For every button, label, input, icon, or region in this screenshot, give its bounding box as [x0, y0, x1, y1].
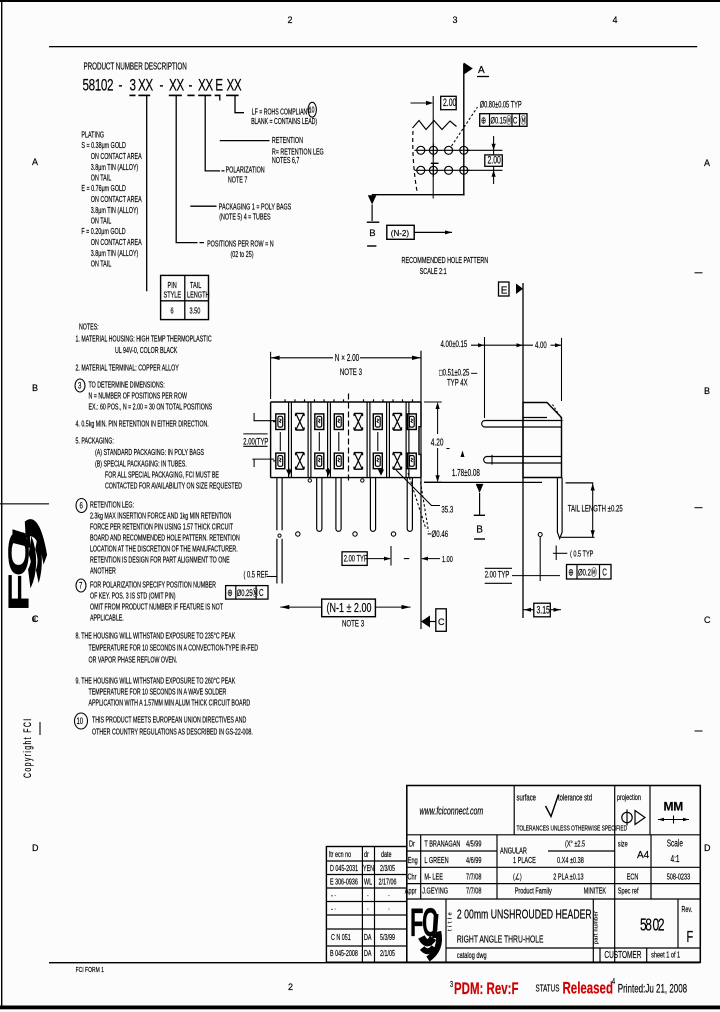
svg-text:N = NUMBER OF POSITIONS PER RO: N = NUMBER OF POSITIONS PER ROW: [89, 393, 188, 401]
pin 1 (long, with break): [277, 478, 282, 584]
signature rows: [405, 838, 690, 896]
positions per row labels: [207, 240, 273, 259]
svg-text:( 0.5 REF: ( 0.5 REF: [244, 569, 269, 580]
E flag triangle: [516, 284, 523, 295]
2.00 column dim box: [441, 96, 457, 109]
bar mark above row2 hole: [431, 162, 439, 164]
(0.5) TYP label: [555, 546, 557, 561]
hole pattern baseline: [372, 194, 465, 196]
down arrows at body bottom: [287, 468, 383, 475]
svg-text:C: C: [438, 617, 445, 627]
svg-text:1.00: 1.00: [442, 554, 453, 565]
svg-text:4.00±0.15: 4.00±0.15: [441, 339, 468, 350]
bottom black margin bar: [0, 1006, 720, 1010]
svg-text:·: ·: [388, 892, 390, 900]
svg-text:Ø0.46: Ø0.46: [431, 528, 448, 539]
pin 3: [317, 478, 322, 532]
svg-text:4/6/99: 4/6/99: [466, 855, 481, 866]
back row pin tips: [296, 532, 300, 536]
svg-text:FOR ALL SPECIAL PACKAGING, FCI: FOR ALL SPECIAL PACKAGING, FCI MUST BE: [105, 472, 219, 480]
packaging leader line: [190, 205, 216, 207]
pcb surface line: [424, 481, 542, 483]
svg-text:PDM: Rev:F: PDM: Rev:F: [454, 980, 519, 999]
hole row centerlines: [415, 149, 471, 151]
retention leader line: [220, 140, 270, 142]
svg-text:4:1: 4:1: [670, 852, 679, 864]
svg-text:NOTE 3: NOTE 3: [342, 618, 365, 629]
callout leader: LF rohs: [235, 96, 244, 113]
top frame border line: [49, 46, 697, 47]
svg-text:3: 3: [129, 77, 135, 96]
bottom 2.00 TYP dim: [342, 552, 367, 566]
svg-text:(N-1 ± 2.00: (N-1 ± 2.00: [327, 602, 372, 616]
svg-text:-: -: [189, 77, 193, 96]
svg-text:A: A: [704, 158, 710, 168]
svg-text:Rev.: Rev.: [682, 906, 693, 914]
board edge dashed: [413, 131, 417, 191]
pin 6: [370, 478, 375, 532]
body outline: [271, 402, 421, 478]
svg-text:-: -: [160, 77, 164, 96]
callout leader: plating (long vertical): [146, 96, 148, 291]
svg-text:B 045-2008: B 045-2008: [330, 950, 358, 958]
svg-text:TEMPERATURE FOR 10 SECONDS IN: TEMPERATURE FOR 10 SECONDS IN A CONVECTI…: [89, 645, 259, 653]
svg-text:ANOTHER: ANOTHER: [90, 568, 116, 576]
svg-text:APPLICABLE.: APPLICABLE.: [90, 615, 124, 623]
svg-text:CONTACTED FOR AVAILABILITY ON: CONTACTED FOR AVAILABILITY ON SIZE REQUE…: [105, 483, 242, 491]
svg-text:7/7/08: 7/7/08: [466, 885, 481, 896]
svg-text:(NOTE 5) 4 = TUBES: (NOTE 5) 4 = TUBES: [219, 214, 271, 222]
svg-text:D: D: [704, 843, 711, 853]
svg-text:(X° ±2.5: (X° ±2.5: [565, 838, 585, 849]
circled 10 after rohs: [308, 102, 316, 117]
retention labels: [272, 137, 324, 165]
svg-text:2.3kg MAX INSERTION FORCE AND: 2.3kg MAX INSERTION FORCE AND 1kg MIN RE…: [90, 513, 231, 521]
mid ticks between rows: [273, 422, 378, 461]
bottom section dividers: [445, 899, 447, 962]
svg-text:www.fciconnect.com: www.fciconnect.com: [420, 805, 484, 817]
polarization labels: [226, 167, 265, 185]
right 4.20 height dim: [424, 401, 442, 403]
svg-text:2 PLA ±0.13: 2 PLA ±0.13: [553, 871, 583, 882]
E flag box: [499, 282, 510, 296]
svg-text:XX: XX: [226, 77, 241, 96]
svg-text:OTHER COUNTRY REGULATIONS AS D: OTHER COUNTRY REGULATIONS AS DESCRIBED I…: [92, 729, 253, 737]
right edge with step: [419, 402, 421, 478]
datum A flag vertical line: [463, 64, 465, 196]
svg-text:Ø0.2Ⓜ: Ø0.2Ⓜ: [578, 567, 597, 578]
notes section: [75, 324, 258, 737]
svg-text:®: ®: [32, 614, 37, 625]
zone ticks right margin: [695, 272, 703, 273]
svg-text:R= RETENTION LEG: R= RETENTION LEG: [272, 149, 324, 157]
svg-text:FOR POLARIZATION SPECIFY POSIT: FOR POLARIZATION SPECIFY POSITION NUMBER: [90, 582, 216, 590]
svg-text:2.00 TYP: 2.00 TYP: [344, 553, 368, 564]
svg-text:E: E: [215, 77, 223, 96]
svg-text:BLANK = CONTAINS LEAD): BLANK = CONTAINS LEAD): [251, 118, 317, 126]
svg-text:10: 10: [309, 106, 315, 114]
svg-text:5. PACKAGING:: 5. PACKAGING:: [75, 438, 113, 446]
svg-text:DA: DA: [364, 934, 372, 942]
top black margin bar: [0, 0, 720, 2]
svg-text:BOARD AND RECOMMENDED HOLE PAT: BOARD AND RECOMMENDED HOLE PATTERN. RETE…: [90, 535, 240, 543]
svg-text:2.00: 2.00: [487, 154, 500, 166]
datum B letter between bars: [367, 221, 380, 223]
svg-text:surface: surface: [517, 792, 536, 803]
svg-text:8. THE HOUSING WILL WITHSTAND: 8. THE HOUSING WILL WITHSTAND EXPOSURE T…: [75, 631, 235, 641]
svg-text:10: 10: [76, 716, 83, 727]
pin 4: [336, 478, 341, 532]
svg-text:Ø0.80±0.05 TYP: Ø0.80±0.05 TYP: [480, 99, 522, 110]
svg-text:Chr: Chr: [407, 871, 416, 882]
svg-text:C: C: [259, 587, 264, 598]
svg-text:part number: part number: [594, 911, 600, 944]
svg-text:CUSTOMER: CUSTOMER: [604, 948, 641, 960]
svg-text:RECOMMENDED HOLE PATTERN: RECOMMENDED HOLE PATTERN: [401, 256, 488, 266]
circled note number 3: [75, 379, 85, 392]
3.15 dim: [534, 603, 551, 617]
FCI logo in title block: [410, 900, 439, 959]
left 2.00 TYP row pitch label: [243, 433, 267, 435]
svg-text:C: C: [602, 566, 607, 578]
svg-text:9. THE HOUSING WILL WITHSTAND: 9. THE HOUSING WILL WITHSTAND EXPOSURE T…: [75, 676, 235, 686]
svg-text:2/17/06: 2/17/06: [378, 879, 396, 887]
svg-text:projection: projection: [617, 792, 641, 803]
pin style / tail length table: [161, 275, 210, 319]
svg-text:D: D: [32, 843, 39, 853]
svg-text:- ·: - ·: [331, 892, 336, 900]
svg-text:L GREEN: L GREEN: [424, 855, 448, 866]
svg-text:XX: XX: [198, 77, 213, 96]
svg-text:4: 4: [613, 15, 618, 25]
svg-text:PRODUCT NUMBER DESCRIPTION: PRODUCT NUMBER DESCRIPTION: [84, 61, 187, 72]
svg-text:5/3/99: 5/3/99: [380, 934, 395, 942]
Copyright FCI vertical text: [21, 717, 33, 778]
tail: [557, 478, 562, 539]
svg-text:E 306-0936: E 306-0936: [330, 879, 358, 887]
circled note number 7: [76, 579, 86, 592]
section line E: [522, 283, 524, 618]
center dashed divider: [348, 394, 350, 481]
cell divider double lines: [289, 402, 409, 478]
svg-text:-: -: [119, 77, 123, 96]
svg-text:ON TAIL: ON TAIL: [91, 175, 111, 183]
row1 pin (side): [485, 421, 562, 428]
2.00 column dim extension line: [432, 96, 434, 199]
svg-text:Printed:Ju 21, 2008: Printed:Ju 21, 2008: [618, 983, 688, 996]
svg-text:UL 94V-0, COLOR BLACK: UL 94V-0, COLOR BLACK: [115, 347, 178, 355]
row2 pin (side): [487, 457, 562, 464]
holes row 2: [417, 166, 468, 174]
svg-text:S = 0.38μm GOLD: S = 0.38μm GOLD: [81, 142, 125, 150]
svg-text:7/7/08: 7/7/08: [466, 871, 481, 882]
svg-text:OF KEY. POS. 3 IS STD (OMIT PI: OF KEY. POS. 3 IS STD (OMIT PIN): [90, 593, 176, 601]
svg-text:Scale: Scale: [667, 837, 683, 849]
svg-text:·: ·: [367, 892, 369, 900]
packaging labels: [219, 203, 292, 222]
svg-text:Eng: Eng: [408, 855, 418, 866]
hole position feature control frame: [480, 114, 527, 127]
svg-text:date: date: [381, 851, 392, 859]
svg-text:C: C: [704, 615, 711, 625]
svg-text:2.00: 2.00: [443, 96, 456, 108]
svg-text:T BRANAGAN: T BRANAGAN: [424, 838, 460, 849]
svg-text:508-0233: 508-0233: [667, 871, 690, 882]
svg-text:C N 051: C N 051: [331, 934, 351, 942]
svg-text:B: B: [704, 386, 710, 396]
outer box: [407, 786, 701, 963]
circled note number 10: [75, 713, 88, 729]
svg-text:(∠): (∠): [513, 871, 522, 882]
svg-text:SCALE 2:1: SCALE 2:1: [420, 267, 447, 277]
svg-text:ltr ecn no: ltr ecn no: [329, 851, 351, 859]
svg-text:Released: Released: [563, 980, 613, 999]
dotted leader to hole size label: [452, 107, 478, 146]
side feature control frame: [567, 565, 612, 580]
(N-2) boxed dim: [387, 225, 414, 239]
svg-text:POSITIONS PER ROW = N: POSITIONS PER ROW = N: [207, 240, 273, 248]
svg-text:4.00: 4.00: [535, 340, 547, 351]
svg-text:TAIL LENGTH ±0.25: TAIL LENGTH ±0.25: [568, 503, 623, 514]
svg-text:size: size: [618, 838, 628, 849]
small circles under body: [308, 479, 311, 482]
svg-text:(B) SPECIAL PACKAGING: IN TUBE: (B) SPECIAL PACKAGING: IN TUBES.: [95, 461, 187, 469]
svg-text:ON CONTACT AREA: ON CONTACT AREA: [91, 196, 142, 204]
svg-text:PACKAGING 1 = POLY BAGS: PACKAGING 1 = POLY BAGS: [219, 203, 292, 211]
svg-text:STYLE: STYLE: [164, 289, 182, 300]
svg-text:(A) STANDARD PACKAGING: IN POL: (A) STANDARD PACKAGING: IN POLY BAGS: [95, 449, 204, 457]
svg-text:B: B: [32, 383, 38, 393]
row2 contacts: [276, 453, 285, 469]
svg-text:STATUS: STATUS: [535, 983, 559, 994]
svg-text:TYP 4X: TYP 4X: [447, 377, 468, 388]
svg-text:Dr: Dr: [409, 838, 415, 849]
svg-text:3.50: 3.50: [190, 305, 201, 316]
svg-text:(N-2): (N-2): [391, 229, 410, 238]
svg-text:58 02: 58 02: [640, 915, 664, 935]
row1 contacts: [276, 414, 285, 430]
svg-text:4/5/99: 4/5/99: [466, 838, 481, 849]
svg-text:1.78±0.08: 1.78±0.08: [452, 468, 480, 479]
top dim N x 2.00: [270, 352, 272, 399]
svg-text:2/1/05: 2/1/05: [380, 950, 395, 958]
svg-text:ON CONTACT AREA: ON CONTACT AREA: [91, 239, 142, 247]
svg-text:D 045-2031: D 045-2031: [330, 865, 358, 873]
svg-text:2.00(TYP: 2.00(TYP: [243, 436, 268, 447]
svg-text:NOTE 7: NOTE 7: [228, 177, 247, 185]
svg-text:3.8μm TIN (ALLOY): 3.8μm TIN (ALLOY): [91, 250, 139, 258]
svg-text:LENGTH: LENGTH: [187, 289, 210, 300]
LF = ROHS COMPLIANT label: [251, 108, 317, 126]
svg-text:Copyright FCI: Copyright FCI: [21, 717, 33, 778]
svg-text:LOCATION AT THE DISCRETION OF: LOCATION AT THE DISCRETION OF THE MANUFA…: [90, 546, 238, 554]
top section dividers: [513, 786, 515, 835]
svg-text:58102: 58102: [83, 77, 114, 96]
svg-text:3.15: 3.15: [536, 604, 549, 616]
svg-text:2: 2: [288, 982, 293, 992]
callout tick under E: [219, 96, 221, 101]
(N-1) x 2.00 bottom dim: [280, 606, 410, 608]
board edge break zigzag: [413, 121, 457, 130]
plating code list: [81, 132, 142, 269]
left vertical border line: [1, 0, 2, 1007]
svg-text:·: ·: [388, 906, 390, 914]
svg-text:RETENTION: RETENTION: [272, 137, 303, 145]
pcb datum flag: [476, 484, 484, 493]
name column dividers: [420, 835, 422, 899]
svg-text:2/3/05: 2/3/05: [380, 865, 395, 873]
bottom frame border line: [49, 962, 700, 963]
svg-text:(02 to 25): (02 to 25): [230, 251, 253, 259]
svg-text:A4: A4: [637, 850, 650, 861]
svg-text:ECN: ECN: [627, 871, 639, 882]
svg-text:2.00 TYP: 2.00 TYP: [485, 569, 510, 580]
svg-text:·: ·: [367, 906, 369, 914]
svg-text:t i t l e: t i t l e: [448, 912, 454, 931]
svg-text:YEN: YEN: [363, 865, 374, 873]
callout leader: polarization: [205, 96, 224, 171]
svg-text:TO DETERMINE DIMENSIONS:: TO DETERMINE DIMENSIONS:: [89, 382, 165, 390]
svg-text:EX.: 60 POS., N = 2.00 = 30 ON: EX.: 60 POS., N = 2.00 = 30 ON TOTAL POS…: [89, 404, 213, 412]
svg-text:Spec ref: Spec ref: [618, 885, 639, 896]
svg-text:1 PLACE: 1 PLACE: [513, 855, 536, 866]
svg-text:F = 0.20μm GOLD: F = 0.20μm GOLD: [81, 228, 125, 236]
svg-text:FORCE PER RETENTION PIN USING: FORCE PER RETENTION PIN USING 1.57 THICK…: [90, 524, 234, 532]
pin 8: [407, 478, 412, 532]
svg-text:TOLERANCES UNLESS OTHERWISE SP: TOLERANCES UNLESS OTHERWISE SPECIFIED: [517, 825, 628, 833]
horizontal row lines: [407, 834, 701, 836]
svg-text:MM: MM: [664, 800, 684, 814]
svg-text:35.3: 35.3: [441, 504, 453, 515]
svg-text:E: E: [501, 286, 508, 297]
svg-text:N × 2.00: N × 2.00: [335, 351, 360, 363]
castellation notches on top edge: [285, 399, 413, 402]
svg-text:MINITEK: MINITEK: [584, 885, 607, 896]
callout leader: positions per row: [176, 96, 204, 243]
2.00 column dim arrow: [411, 102, 433, 104]
svg-text:FCI FORM 1: FCI FORM 1: [76, 966, 105, 974]
holes row 1: [417, 146, 468, 154]
svg-text:RETENTION LEG:: RETENTION LEG:: [90, 502, 134, 510]
svg-text:APPLICATION WITH A 1.57MM MIN: APPLICATION WITH A 1.57MM MIN ALUM THICK…: [89, 700, 251, 708]
svg-text:4: 4: [612, 976, 615, 987]
svg-text:WL: WL: [364, 879, 372, 887]
svg-text:ON TAIL: ON TAIL: [91, 261, 111, 269]
svg-text:4. 0.5kg MIN. PIN RETENTION IN: 4. 0.5kg MIN. PIN RETENTION IN EITHER DI…: [75, 421, 208, 429]
svg-text:F: F: [687, 928, 694, 945]
svg-text:⊕: ⊕: [481, 115, 486, 126]
svg-text:J.GEYING: J.GEYING: [422, 885, 448, 896]
svg-text:6: 6: [170, 305, 173, 316]
svg-text:NOTE 3: NOTE 3: [340, 366, 363, 377]
fold tick mid left margin: [39, 722, 41, 735]
svg-text:RETENTION IS DESIGN FOR PART A: RETENTION IS DESIGN FOR PART ALIGNMENT T…: [90, 557, 230, 565]
svg-text:OR VAPOR PHASE REFLOW OVEN.: OR VAPOR PHASE REFLOW OVEN.: [89, 657, 178, 665]
part number 58102-3XX-XX-XXEXX: [83, 77, 242, 96]
left fold mark line: [0, 503, 49, 504]
svg-text:Product Family: Product Family: [515, 885, 552, 896]
svg-text:A: A: [32, 157, 38, 167]
svg-text:2. MATERIAL TERMINAL: COPPER A: 2. MATERIAL TERMINAL: COPPER ALLOY: [75, 365, 179, 373]
svg-text:M- LEE: M- LEE: [424, 871, 443, 882]
svg-text:⊕: ⊕: [568, 566, 573, 578]
checkmark: [546, 795, 559, 817]
svg-text:0.X4 ±0.38: 0.X4 ±0.38: [557, 855, 584, 866]
svg-text:Ⓜ: Ⓜ: [521, 115, 527, 126]
svg-text:NOTES 6,7: NOTES 6,7: [272, 157, 300, 165]
vertical "title" label: [448, 912, 454, 931]
svg-text:C: C: [513, 115, 518, 126]
left margin FCI logo (rotated): [2, 528, 45, 612]
svg-text:3.8μm TIN (ALLOY): 3.8μm TIN (ALLOY): [91, 207, 139, 215]
svg-text:Ø0.25Ⓜ: Ø0.25Ⓜ: [237, 587, 259, 598]
datum A flag triangle: [464, 63, 473, 75]
svg-text:A: A: [478, 65, 485, 76]
svg-text:DA: DA: [364, 950, 372, 958]
svg-text:⊕: ⊕: [227, 587, 232, 598]
vertical part number label: [594, 911, 600, 944]
svg-text:3: 3: [450, 979, 453, 990]
svg-text:catalog dwg: catalog dwg: [457, 949, 487, 960]
svg-text:XX: XX: [169, 77, 184, 96]
svg-text:7: 7: [79, 580, 83, 591]
svg-text:tolerance std: tolerance std: [558, 792, 592, 803]
svg-text:sheet 1 of 1: sheet 1 of 1: [651, 949, 680, 960]
svg-text:NOTES:: NOTES:: [79, 324, 99, 332]
svg-text:2 00mm UNSHROUDED HEADER: 2 00mm UNSHROUDED HEADER: [457, 908, 592, 922]
hole col2 crosshair: [432, 144, 434, 158]
svg-text:PLATING: PLATING: [81, 132, 104, 140]
svg-text:OMIT FROM PRODUCT NUMBER IF FE: OMIT FROM PRODUCT NUMBER IF FEATURE IS N…: [90, 604, 224, 612]
svg-text:6: 6: [80, 500, 84, 511]
circled note number 6: [76, 499, 87, 513]
svg-text:3: 3: [78, 380, 82, 391]
svg-text:3: 3: [453, 15, 458, 25]
svg-text:( 0.5 TYP: ( 0.5 TYP: [570, 548, 593, 559]
svg-text:XX: XX: [138, 77, 153, 96]
svg-text:POLARIZATION: POLARIZATION: [226, 167, 265, 175]
underline segments under part number fields: [129, 94, 238, 96]
svg-text:3.8μm TIN (ALLOY): 3.8μm TIN (ALLOY): [91, 164, 139, 172]
svg-text:- ·: - ·: [331, 906, 336, 914]
svg-text:2: 2: [288, 15, 293, 25]
datum C flag (front view): [421, 616, 430, 628]
svg-text:Ø0.15Ⓜ: Ø0.15Ⓜ: [491, 115, 513, 126]
leader to 35.3 label: [396, 470, 440, 506]
side body outline: [523, 403, 562, 478]
datum B flag triangle: [368, 195, 377, 204]
svg-text:E = 0.76μm GOLD: E = 0.76μm GOLD: [81, 185, 125, 193]
svg-text:B: B: [369, 228, 375, 239]
svg-text:RIGHT ANGLE THRU-HOLE: RIGHT ANGLE THRU-HOLE: [457, 933, 544, 945]
svg-text:B: B: [476, 525, 483, 536]
svg-text:TEMPERATURE FOR 10 SECONDS IN: TEMPERATURE FOR 10 SECONDS IN A WAVE SOL…: [89, 689, 227, 697]
svg-text:4.20: 4.20: [431, 436, 444, 448]
svg-text:ON CONTACT AREA: ON CONTACT AREA: [91, 153, 142, 161]
row spacing 2.00 dim: [466, 149, 503, 151]
2.00 TYP (side): [485, 567, 512, 569]
svg-text:dr: dr: [364, 851, 369, 859]
svg-text:1. MATERIAL HOUSING: HIGH TEMP: 1. MATERIAL HOUSING: HIGH TEMP THERMOPLA…: [75, 336, 211, 344]
front feature control frame: [226, 586, 268, 600]
svg-text:THIS PRODUCT MEETS EUROPEAN UN: THIS PRODUCT MEETS EUROPEAN UNION DIRECT…: [92, 717, 246, 725]
dashed leaders to pin size label: [408, 473, 426, 529]
svg-text:LF = ROHS COMPLIANT: LF = ROHS COMPLIANT: [252, 108, 311, 116]
svg-text:ON TAIL: ON TAIL: [91, 218, 111, 226]
